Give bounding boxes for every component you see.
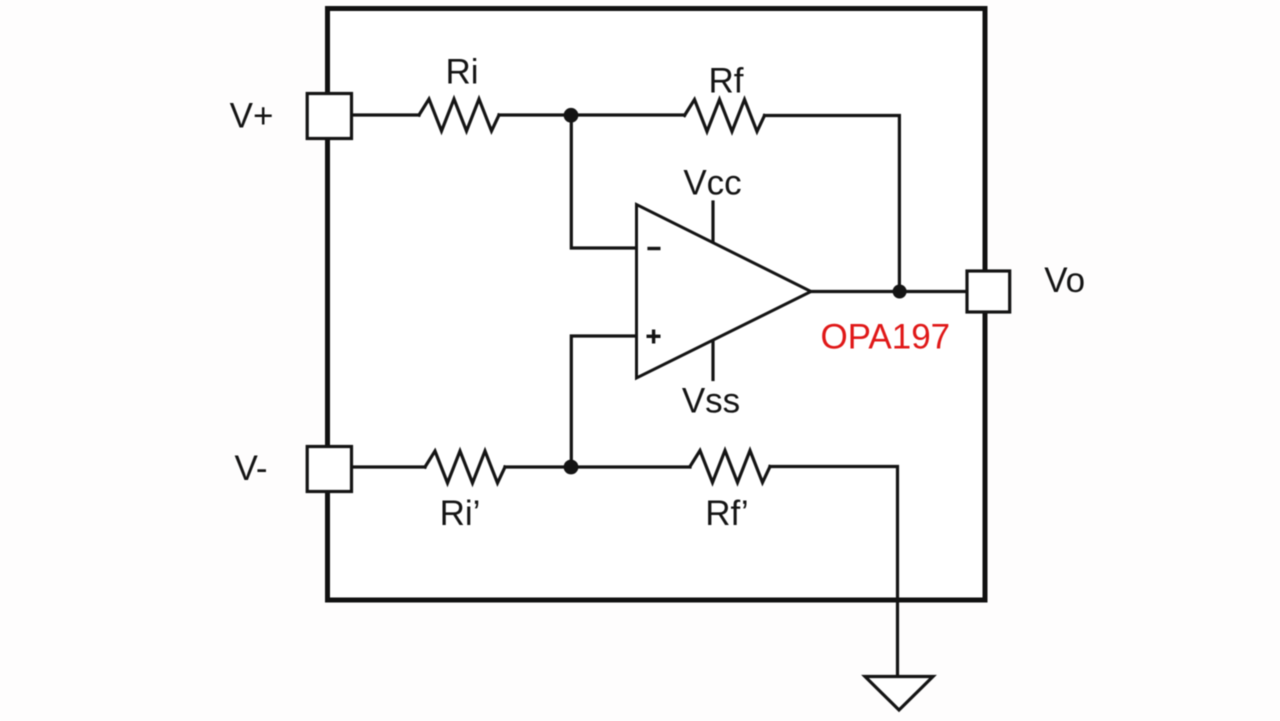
svg-text:Vss: Vss (682, 382, 740, 421)
svg-text:V-: V- (234, 449, 267, 488)
svg-text:Rf: Rf (709, 62, 744, 101)
svg-text:OPA197: OPA197 (820, 318, 950, 357)
svg-text:Ri: Ri (445, 52, 478, 91)
svg-text:V+: V+ (230, 97, 274, 136)
svg-text:Vo: Vo (1044, 261, 1085, 300)
svg-text:Rf’: Rf’ (705, 494, 748, 533)
svg-text:Ri’: Ri’ (440, 494, 481, 533)
svg-text:Vcc: Vcc (683, 164, 741, 203)
